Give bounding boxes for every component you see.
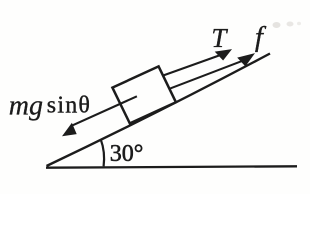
mg sin theta arrow <box>62 96 137 136</box>
block <box>112 66 175 123</box>
angle arc <box>101 139 104 166</box>
wire ground base <box>46 166 297 167</box>
svg-text:f: f <box>255 21 267 53</box>
svg-text:30°: 30° <box>110 141 144 167</box>
svg-text:T: T <box>211 23 228 53</box>
svg-text:mg: mg <box>9 91 43 122</box>
friction arrow f <box>169 53 255 89</box>
faint scan smudges <box>273 22 302 29</box>
tension arrow T <box>163 49 232 76</box>
svg-text:sinθ: sinθ <box>47 92 91 118</box>
wire incline surface <box>47 54 271 167</box>
